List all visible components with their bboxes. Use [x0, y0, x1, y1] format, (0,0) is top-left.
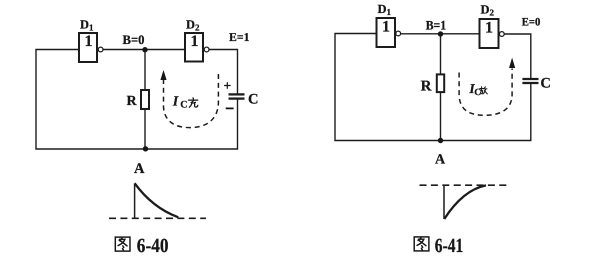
svg-text:D: D	[186, 18, 195, 32]
svg-text:1: 1	[89, 23, 94, 33]
svg-text:R: R	[421, 79, 432, 95]
svg-text:B=1: B=1	[426, 18, 447, 33]
svg-text:A: A	[134, 161, 145, 177]
svg-text:B=0: B=0	[123, 32, 145, 47]
svg-text:D: D	[481, 3, 490, 17]
svg-text:2: 2	[195, 23, 200, 33]
svg-text:R: R	[126, 94, 137, 109]
svg-text:+: +	[223, 78, 231, 93]
svg-text:A: A	[435, 153, 446, 168]
svg-text:1: 1	[191, 33, 199, 50]
svg-text:C: C	[540, 76, 550, 92]
svg-text:1: 1	[382, 19, 390, 36]
svg-text:E=1: E=1	[229, 30, 250, 44]
svg-text:D: D	[378, 2, 387, 16]
svg-text:2: 2	[490, 8, 495, 18]
svg-text:1: 1	[85, 33, 93, 50]
svg-text:I: I	[172, 94, 179, 109]
svg-text:6-40: 6-40	[137, 235, 169, 257]
svg-text:C: C	[180, 99, 187, 110]
svg-text:D: D	[80, 18, 89, 32]
svg-text:C: C	[248, 92, 258, 108]
svg-text:1: 1	[485, 19, 493, 36]
svg-text:E=0: E=0	[522, 17, 541, 29]
svg-text:1: 1	[387, 7, 392, 17]
svg-text:6-41: 6-41	[435, 235, 464, 257]
